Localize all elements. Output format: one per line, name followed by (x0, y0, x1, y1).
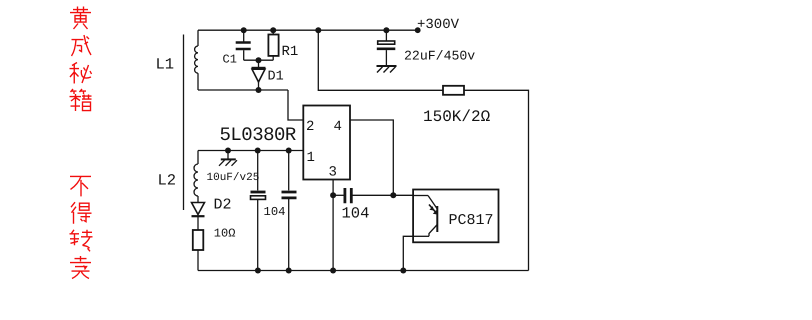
node cap104a bottom (255, 268, 261, 274)
svg-text:D1: D1 (268, 70, 284, 85)
svg-text:22uF/450v: 22uF/450v (404, 49, 475, 64)
capacitor 104 b small (282, 151, 297, 271)
svg-text:1: 1 (307, 150, 315, 166)
wire bottom rail (198, 270, 529, 272)
svg-text:10Ω: 10Ω (214, 226, 236, 240)
node cap104b bottom (286, 268, 292, 274)
diode D1 (252, 60, 266, 90)
hanzi bu (70, 176, 91, 196)
node R1 top (270, 27, 276, 33)
svg-text:L1: L1 (156, 56, 175, 74)
capacitor 10uF/v25 symbol (219, 151, 237, 166)
hanzi mai (70, 256, 91, 279)
node 10uF (225, 148, 231, 154)
svg-text:4: 4 (334, 119, 342, 135)
hanzi ji (70, 89, 92, 111)
hanzi zhuan (70, 230, 93, 252)
svg-text:D2: D2 (214, 197, 232, 214)
node cap104a top (255, 148, 261, 154)
svg-text:150K/2Ω: 150K/2Ω (423, 108, 491, 126)
node pin3 row (330, 192, 336, 198)
svg-text:R1: R1 (282, 44, 299, 60)
svg-text:5L0380R: 5L0380R (220, 124, 296, 146)
inductor L1 (195, 30, 198, 90)
svg-text:104: 104 (342, 205, 370, 223)
node 22uF top (383, 27, 389, 33)
inductor L2 (194, 151, 198, 203)
svg-text:2: 2 (306, 119, 314, 135)
resistor 10ohm (193, 230, 204, 250)
op-amp U1 5L0380R box (303, 106, 350, 180)
capacitor 104 a (251, 151, 266, 271)
wire row pin1 (198, 150, 303, 152)
wire top rail +300V (198, 29, 418, 31)
ground below 22uF (377, 66, 397, 73)
wire node to opto box (393, 194, 413, 196)
wire 150K branch right down to bottom rail (464, 90, 529, 270)
svg-text:L2: L2 (158, 172, 177, 190)
node C1 top (241, 27, 247, 33)
wire pin2 link (288, 90, 303, 120)
hanzi de (71, 202, 92, 224)
diode D2 (192, 203, 205, 231)
capacitor C1 (236, 30, 251, 60)
node pin3 bottom (330, 268, 336, 274)
transformer core (183, 35, 185, 211)
hanzi mi (70, 63, 92, 84)
watermark hanzi red column (70, 7, 93, 279)
hanzi huang (70, 7, 91, 30)
svg-text:C1: C1 (223, 53, 237, 67)
wire 150K branch left (318, 30, 443, 90)
capacitor 22uF/450v (377, 30, 396, 65)
svg-text:3: 3 (329, 165, 337, 181)
node D1 top (256, 57, 262, 63)
node 150K drop (315, 27, 321, 33)
resistor 150K/2ohm (443, 86, 464, 95)
wire pin4 to opto (350, 120, 393, 195)
capacitor 104 c coupling (333, 188, 393, 203)
node cap104b top (286, 148, 292, 154)
hanzi cheng (72, 35, 92, 56)
wire 10ohm to bottom rail (197, 250, 199, 271)
svg-text:+300V: +300V (417, 17, 460, 33)
wire row from L1 bottom to pin2 corner (198, 89, 288, 91)
resistor R1 (268, 30, 278, 60)
wire row C1/R1/D1 junction (244, 59, 274, 61)
svg-text:PC817: PC817 (449, 212, 494, 229)
wire pin3 down (332, 180, 334, 271)
optocoupler PC817 box (413, 190, 498, 243)
svg-text:104: 104 (264, 205, 286, 219)
svg-text:10uF/v25: 10uF/v25 (207, 172, 260, 184)
wire opto emitter to bottom rail (403, 236, 413, 270)
node emitter bottom (400, 268, 406, 274)
node opto input (390, 192, 396, 198)
node +300V terminal (415, 27, 421, 33)
transistor Q1 phototransistor (413, 196, 437, 237)
node D1 bottom (256, 87, 262, 93)
